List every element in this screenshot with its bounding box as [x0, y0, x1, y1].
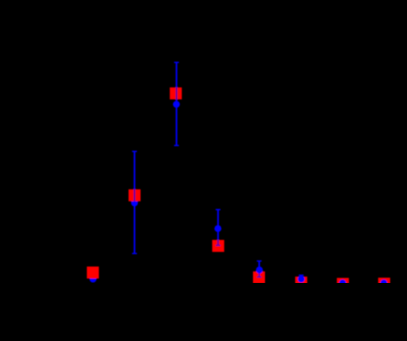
data point 1: top cap: [174, 61, 179, 63]
data point 4: top cap: [216, 209, 221, 211]
data point 4: blue circle marker: [214, 225, 221, 232]
data point 1: blue error bar over square (blended): [176, 87, 178, 100]
data point 5: blue circle marker: [256, 267, 263, 274]
data point 5: blue error bar upper segment: [258, 261, 260, 272]
data point 6: red square marker (clipped by axis): [295, 277, 307, 289]
data point 5: bottom cap over square (blended): [257, 276, 262, 278]
data point 8: red square marker (clipped by axis): [378, 278, 390, 290]
data point 6: blue circle marker over square: [298, 276, 305, 283]
data point 1: blue error bar upper segment: [176, 62, 178, 87]
data point 3: red square marker: [87, 267, 99, 279]
data point 2: blue circle marker (under square): [131, 199, 138, 206]
data point 2: blue error bar lower segment: [134, 201, 136, 253]
data point 6: blue error bar segment: [300, 275, 302, 279]
data point 2: red square marker: [129, 189, 141, 201]
data point 5: top cap: [257, 260, 262, 262]
data point 1: red square marker: [170, 87, 182, 99]
data point 3: blue circle marker (under square): [90, 276, 97, 283]
data point 2: blue error bar over square (blended): [134, 189, 136, 201]
data point 8: blue circle marker over square (clipped): [380, 280, 387, 287]
data point 2: bottom cap: [132, 253, 137, 255]
data point 4: red square marker: [212, 240, 224, 252]
data point 2: top cap: [132, 150, 137, 152]
data point 7: red square marker (clipped by axis): [337, 278, 349, 290]
data point 2: blue error bar upper segment: [134, 151, 136, 189]
data point 5: red square marker: [253, 271, 265, 283]
data point 1: bottom cap: [174, 145, 179, 147]
data point 6: top cap: [299, 274, 304, 276]
data point 5: blue error bar over square (blended): [258, 271, 260, 277]
data point 1: blue circle marker: [173, 101, 180, 108]
data point 1: blue error bar lower segment: [176, 99, 178, 145]
data point 7: blue circle marker over square (clipped): [339, 279, 346, 286]
data point 4: bottom cap over square (blended): [216, 244, 221, 246]
data point 4: blue error bar upper segment: [217, 210, 219, 240]
data point 4: blue error bar over square (blended): [217, 240, 219, 246]
